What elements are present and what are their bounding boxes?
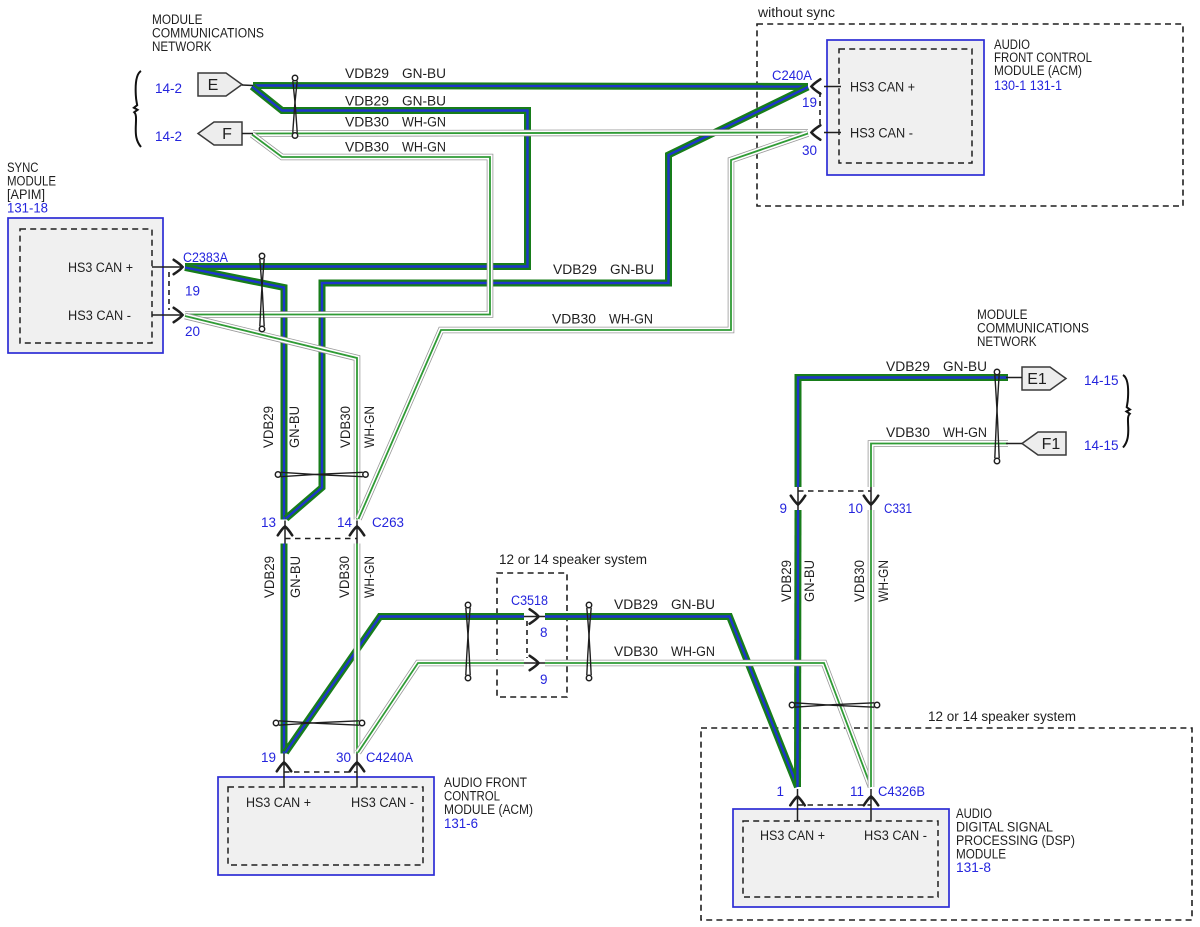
svg-text:VDB29: VDB29 — [886, 359, 930, 374]
svg-text:131-6: 131-6 — [444, 816, 478, 831]
svg-text:VDB30: VDB30 — [886, 425, 930, 440]
svg-text:NETWORK: NETWORK — [152, 39, 212, 54]
svg-text:19: 19 — [185, 284, 200, 299]
svg-text:VDB30: VDB30 — [345, 140, 389, 155]
svg-text:HS3 CAN -: HS3 CAN - — [351, 795, 414, 810]
svg-text:GN-BU: GN-BU — [288, 556, 303, 598]
svg-text:GN-BU: GN-BU — [671, 597, 715, 612]
svg-text:9: 9 — [779, 501, 787, 516]
svg-text:HS3 CAN -: HS3 CAN - — [68, 308, 131, 323]
svg-text:C2383A: C2383A — [183, 250, 228, 265]
svg-text:8: 8 — [540, 625, 548, 640]
svg-text:14-15: 14-15 — [1084, 373, 1119, 388]
svg-text:VDB29: VDB29 — [779, 560, 794, 602]
svg-text:without sync: without sync — [757, 5, 835, 20]
svg-text:WH-GN: WH-GN — [402, 115, 446, 130]
svg-text:C240A: C240A — [772, 68, 812, 83]
svg-text:HS3 CAN +: HS3 CAN + — [68, 260, 133, 275]
svg-text:VDB30: VDB30 — [338, 406, 353, 448]
svg-text:F: F — [222, 126, 232, 143]
svg-text:F1: F1 — [1042, 436, 1061, 453]
svg-text:VDB30: VDB30 — [337, 556, 352, 598]
svg-text:VDB29: VDB29 — [345, 66, 389, 81]
svg-text:GN-BU: GN-BU — [402, 94, 446, 109]
svg-text:GN-BU: GN-BU — [802, 560, 817, 602]
svg-text:11: 11 — [850, 784, 864, 799]
svg-text:12 or 14 speaker system: 12 or 14 speaker system — [499, 552, 647, 567]
svg-text:VDB30: VDB30 — [552, 312, 596, 327]
svg-text:NETWORK: NETWORK — [977, 334, 1037, 349]
svg-text:19: 19 — [261, 750, 276, 765]
svg-text:HS3 CAN +: HS3 CAN + — [246, 795, 311, 810]
svg-text:14-15: 14-15 — [1084, 438, 1119, 453]
svg-text:19: 19 — [802, 95, 817, 110]
svg-text:30: 30 — [802, 143, 817, 158]
svg-text:VDB30: VDB30 — [345, 115, 389, 130]
svg-text:C3518: C3518 — [511, 593, 548, 608]
svg-text:GN-BU: GN-BU — [610, 262, 654, 277]
svg-text:C263: C263 — [372, 515, 404, 530]
svg-text:1: 1 — [776, 784, 784, 799]
svg-text:HS3 CAN -: HS3 CAN - — [850, 126, 913, 141]
svg-text:GN-BU: GN-BU — [402, 66, 446, 81]
svg-text:VDB29: VDB29 — [262, 556, 277, 598]
svg-text:9: 9 — [540, 672, 548, 687]
svg-text:131-18: 131-18 — [7, 201, 48, 216]
svg-text:12 or 14 speaker system: 12 or 14 speaker system — [928, 709, 1076, 724]
svg-text:MODULE (ACM): MODULE (ACM) — [444, 802, 533, 817]
svg-text:130-1 131-1: 130-1 131-1 — [994, 78, 1062, 93]
svg-text:WH-GN: WH-GN — [362, 556, 377, 598]
svg-text:WH-GN: WH-GN — [402, 140, 446, 155]
svg-text:HS3 CAN +: HS3 CAN + — [850, 80, 915, 95]
svg-text:131-8: 131-8 — [956, 860, 991, 875]
svg-text:WH-GN: WH-GN — [876, 560, 891, 602]
svg-text:E: E — [208, 77, 219, 94]
svg-text:VDB30: VDB30 — [852, 560, 867, 602]
svg-text:13: 13 — [261, 515, 276, 530]
svg-text:14: 14 — [337, 515, 353, 530]
svg-text:WH-GN: WH-GN — [362, 406, 377, 448]
svg-text:14-2: 14-2 — [155, 129, 182, 144]
svg-text:WH-GN: WH-GN — [943, 425, 987, 440]
svg-text:WH-GN: WH-GN — [609, 312, 653, 327]
svg-text:30: 30 — [336, 750, 351, 765]
svg-text:VDB30: VDB30 — [614, 644, 658, 659]
svg-text:C4240A: C4240A — [366, 750, 413, 765]
svg-text:GN-BU: GN-BU — [943, 359, 987, 374]
svg-text:HS3 CAN +: HS3 CAN + — [760, 828, 825, 843]
svg-text:VDB29: VDB29 — [553, 262, 597, 277]
svg-text:10: 10 — [848, 501, 863, 516]
svg-text:HS3 CAN -: HS3 CAN - — [864, 828, 927, 843]
svg-text:VDB29: VDB29 — [345, 94, 389, 109]
svg-text:20: 20 — [185, 324, 200, 339]
svg-text:C331: C331 — [884, 501, 912, 516]
svg-text:WH-GN: WH-GN — [671, 644, 715, 659]
svg-text:E1: E1 — [1027, 371, 1047, 388]
svg-text:14-2: 14-2 — [155, 81, 182, 96]
svg-text:MODULE (ACM): MODULE (ACM) — [994, 63, 1082, 78]
svg-text:VDB29: VDB29 — [614, 597, 658, 612]
svg-text:C4326B: C4326B — [878, 784, 925, 799]
svg-text:VDB29: VDB29 — [261, 406, 276, 448]
svg-text:GN-BU: GN-BU — [287, 406, 302, 448]
